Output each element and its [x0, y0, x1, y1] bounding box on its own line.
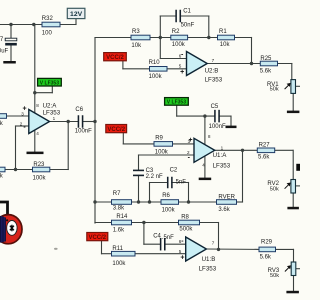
svg-text:50nF: 50nF — [181, 22, 195, 28]
svg-text:RVER: RVER — [218, 195, 235, 201]
svg-text:R23: R23 — [33, 162, 45, 168]
svg-text:R25: R25 — [260, 56, 272, 62]
svg-text:C3: C3 — [146, 168, 154, 174]
svg-text:4: 4 — [36, 131, 39, 136]
svg-text:100nF: 100nF — [75, 128, 92, 134]
svg-text:.5nF: .5nF — [162, 235, 174, 241]
svg-text:5: 5 — [179, 249, 182, 254]
svg-text:LF353: LF353 — [205, 77, 223, 84]
svg-text:1.6k: 1.6k — [113, 227, 125, 233]
svg-text:100k: 100k — [155, 150, 169, 156]
svg-text:R6: R6 — [162, 193, 170, 199]
svg-text:2: 2 — [20, 121, 23, 126]
svg-text:V LF353: V LF353 — [167, 100, 186, 106]
svg-text:2.2 nF: 2.2 nF — [146, 174, 163, 180]
svg-text:5.6k: 5.6k — [260, 68, 272, 74]
svg-text:U1:B: U1:B — [202, 256, 216, 263]
svg-text:R14: R14 — [116, 214, 128, 220]
svg-text:100nF: 100nF — [209, 124, 226, 130]
svg-text:R9: R9 — [155, 136, 163, 142]
svg-text:1: 1 — [53, 116, 56, 121]
svg-text:LF353: LF353 — [199, 265, 217, 272]
svg-text:R1: R1 — [219, 29, 227, 35]
svg-text:C2: C2 — [170, 167, 178, 173]
svg-text:500k: 500k — [179, 226, 193, 232]
svg-text:R2: R2 — [172, 29, 180, 35]
svg-text:50k: 50k — [270, 186, 279, 192]
svg-text:1: 1 — [221, 145, 224, 150]
svg-text:5.6k: 5.6k — [260, 255, 272, 261]
svg-text:+: + — [23, 106, 27, 113]
svg-text:R3: R3 — [132, 29, 140, 35]
svg-text:C6: C6 — [75, 107, 83, 113]
svg-text:R29: R29 — [261, 240, 273, 246]
svg-text:R7: R7 — [113, 191, 121, 197]
svg-text:50k: 50k — [270, 86, 279, 92]
svg-text:U2:B: U2:B — [205, 67, 219, 74]
svg-text:100k: 100k — [112, 261, 126, 267]
svg-text:R27: R27 — [259, 143, 271, 149]
svg-text:VCC/2: VCC/2 — [107, 127, 125, 133]
svg-text:100k: 100k — [33, 176, 47, 182]
svg-text:100k: 100k — [162, 207, 176, 213]
svg-text:5nF: 5nF — [176, 179, 187, 185]
svg-text:3.8k: 3.8k — [113, 206, 125, 212]
svg-text:12V: 12V — [70, 11, 83, 18]
svg-text:10k: 10k — [131, 43, 142, 49]
svg-text:+: + — [180, 255, 184, 262]
svg-text:R10: R10 — [149, 60, 161, 66]
svg-text:100k: 100k — [149, 74, 163, 80]
svg-text:R32: R32 — [42, 16, 54, 22]
svg-text:7: 7 — [212, 240, 215, 245]
svg-text:R8: R8 — [181, 214, 189, 220]
svg-text:100k: 100k — [172, 42, 186, 48]
svg-text:8: 8 — [36, 103, 39, 108]
svg-text:3.6k: 3.6k — [218, 207, 230, 213]
svg-text:C4: C4 — [153, 233, 161, 239]
svg-text:U2:A: U2:A — [43, 102, 58, 109]
svg-text:100: 100 — [42, 31, 53, 37]
svg-text:+: + — [189, 137, 193, 144]
svg-text:C5: C5 — [211, 104, 219, 110]
svg-text:LF353: LF353 — [43, 110, 61, 117]
svg-text:U1:A: U1:A — [213, 152, 228, 159]
svg-text:LF353: LF353 — [213, 162, 231, 169]
svg-text:50k: 50k — [270, 273, 279, 279]
svg-text:7: 7 — [212, 58, 215, 63]
svg-text:+: + — [180, 69, 184, 76]
svg-text:100uF: 100uF — [0, 48, 9, 54]
svg-text:C1: C1 — [183, 8, 191, 14]
svg-text:5.6k: 5.6k — [258, 155, 270, 161]
svg-text:VCC/2: VCC/2 — [106, 55, 124, 61]
svg-text:VCC/2: VCC/2 — [88, 235, 106, 241]
svg-text:R11: R11 — [112, 246, 123, 252]
svg-text:10k: 10k — [220, 42, 231, 48]
svg-text:5: 5 — [179, 63, 182, 68]
svg-text:V LF353: V LF353 — [40, 80, 59, 86]
